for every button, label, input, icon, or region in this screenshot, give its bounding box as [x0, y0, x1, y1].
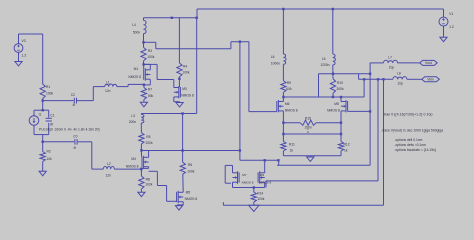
svg-text:M1: M1: [134, 67, 139, 71]
svg-text:100k: 100k: [147, 55, 155, 59]
svg-text:R6: R6: [188, 163, 192, 167]
svg-text:12n: 12n: [106, 174, 112, 178]
svg-text:C2: C2: [71, 93, 75, 97]
svg-text:1k: 1k: [290, 148, 294, 152]
svg-text:1200n: 1200n: [320, 63, 329, 67]
svg-text:Vinv: Vinv: [427, 78, 434, 82]
svg-text:100k: 100k: [182, 71, 190, 75]
svg-text:L1: L1: [106, 80, 110, 84]
svg-text:NMOS 8: NMOS 8: [259, 181, 271, 185]
svg-text:NMOS 8: NMOS 8: [128, 75, 141, 79]
svg-text:M9: M9: [260, 173, 265, 177]
svg-text:R9: R9: [287, 81, 291, 85]
svg-text:M4: M4: [131, 157, 136, 161]
svg-text:.noise V(Vout) I1 dec 1000 1gi: .noise V(Vout) I1 dec 1000 1giga 500giga: [381, 129, 443, 133]
svg-text:NMOS 8: NMOS 8: [126, 164, 139, 168]
svg-text:R12: R12: [344, 143, 350, 147]
svg-text:L5: L5: [322, 57, 326, 61]
svg-text:1k: 1k: [344, 148, 348, 152]
svg-text:100k: 100k: [46, 92, 54, 96]
svg-text:R11: R11: [289, 143, 295, 147]
svg-text:L2: L2: [107, 162, 111, 166]
svg-text:PULSE(0 .010m 0 .4n .4n 1.8n 4: PULSE(0 .010m 0 .4n .4n 1.8n 4.16n 20): [39, 127, 100, 131]
svg-text:12n: 12n: [105, 89, 111, 93]
svg-text:L3: L3: [131, 114, 135, 118]
svg-text:M3: M3: [182, 87, 187, 91]
svg-text:60k: 60k: [286, 87, 292, 91]
svg-text:L7: L7: [388, 55, 392, 59]
svg-text:NMOS 8: NMOS 8: [185, 197, 198, 201]
svg-text:M6: M6: [285, 102, 290, 106]
svg-text:1000n: 1000n: [271, 61, 280, 65]
svg-text:R10: R10: [337, 81, 343, 85]
svg-text:10k: 10k: [47, 157, 53, 161]
svg-text:10p: 10p: [397, 81, 403, 85]
svg-text:R3: R3: [148, 49, 152, 53]
svg-text:.options defw =0.1nm: .options defw =0.1nm: [395, 143, 427, 147]
svg-text:R1: R1: [46, 85, 50, 89]
svg-text:NMOS 8: NMOS 8: [285, 109, 298, 113]
svg-text:.options defl 0.1nm: .options defl 0.1nm: [395, 138, 423, 142]
svg-text:NMOS 8: NMOS 8: [181, 94, 194, 98]
svg-text:R8: R8: [146, 178, 150, 182]
svg-text:L8: L8: [397, 72, 401, 76]
svg-text:R2: R2: [47, 149, 51, 153]
svg-text:R14: R14: [257, 191, 263, 195]
svg-text:M7: M7: [242, 173, 247, 177]
svg-text:V3: V3: [22, 39, 26, 43]
svg-text:M8: M8: [334, 102, 339, 106]
svg-text:R4: R4: [183, 64, 187, 68]
svg-text:.options baudrate = {14.19n}: .options baudrate = {14.19n}: [395, 148, 437, 152]
svg-text:1.2: 1.2: [449, 25, 454, 29]
svg-text:8f: 8f: [50, 122, 53, 126]
svg-text:4f: 4f: [73, 103, 76, 107]
svg-text:100k: 100k: [187, 169, 195, 173]
svg-text:L4: L4: [132, 23, 136, 27]
svg-text:100k: 100k: [257, 197, 265, 201]
svg-text:50k: 50k: [148, 94, 154, 98]
svg-text:NMOS 8: NMOS 8: [242, 181, 254, 185]
svg-text:102k: 102k: [145, 183, 153, 187]
svg-text:1.2: 1.2: [22, 54, 27, 58]
svg-text:10p: 10p: [389, 66, 395, 70]
svg-text:500n: 500n: [133, 31, 141, 35]
svg-text:300k: 300k: [337, 87, 345, 91]
svg-text:200k: 200k: [146, 141, 154, 145]
svg-text:L6: L6: [271, 55, 275, 59]
svg-text:200n: 200n: [129, 120, 137, 124]
svg-text:M5: M5: [186, 191, 191, 195]
svg-text:Vout: Vout: [425, 61, 432, 65]
svg-text:R5: R5: [146, 135, 150, 139]
svg-text:R15: R15: [305, 117, 311, 121]
svg-text:NMOS 8: NMOS 8: [327, 109, 340, 113]
svg-text:C1: C1: [50, 114, 54, 118]
svg-text:V1: V1: [449, 12, 453, 16]
svg-text:I1: I1: [39, 113, 42, 117]
svg-text:R7: R7: [148, 87, 152, 91]
svg-text:C0: C0: [73, 134, 77, 138]
svg-text:.tran 0 {(4.16p*100)+1.2} 0 10: .tran 0 {(4.16p*100)+1.2} 0 10p: [383, 112, 432, 116]
svg-text:100n: 100n: [304, 126, 312, 130]
svg-text:4f: 4f: [73, 146, 76, 150]
